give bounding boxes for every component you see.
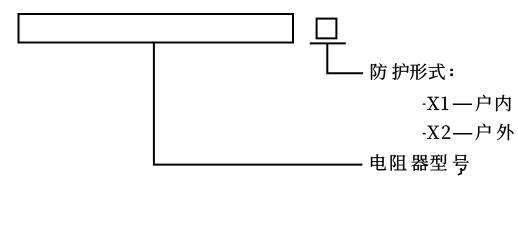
- protection-form box: [317, 19, 337, 39]
- wire: model-number leader: [154, 43, 363, 165]
- label: descender hook of 号: [458, 168, 463, 176]
- label: em dash after X2: [453, 133, 472, 135]
- label: 防护形式: [371, 63, 445, 80]
- wire: protection-form leader: [327, 43, 363, 73]
- label: X2 户外: [427, 124, 513, 141]
- label: 电阻器型号: [371, 154, 469, 171]
- label: X1 户内: [427, 95, 511, 112]
- label: em dash after X1: [453, 104, 472, 106]
- model designation box: [19, 14, 294, 43]
- underline below protection-form box: [310, 42, 346, 44]
- label: hyphen of -X2: [423, 133, 426, 134]
- label: fullwidth colon after 形式: [450, 69, 453, 76]
- label: hyphen of -X1: [423, 104, 426, 105]
